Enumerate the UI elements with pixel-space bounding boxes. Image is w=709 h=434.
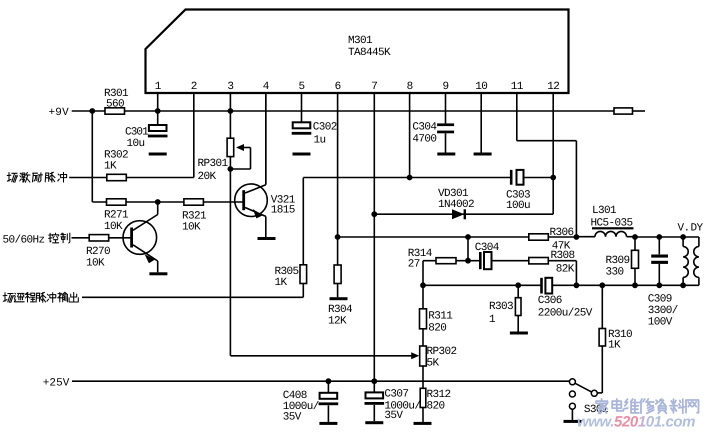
- capacitor C304 pin9: [412, 122, 454, 153]
- resistor R312: [420, 388, 450, 412]
- resistor R301: [104, 88, 129, 114]
- junction: [465, 234, 471, 240]
- deflection yoke V DY coil: [678, 223, 704, 286]
- junction: [515, 282, 521, 288]
- pin 3 label: [227, 81, 233, 93]
- wire R309 branch: [634, 237, 636, 285]
- svg-text:R312: R312: [427, 389, 451, 401]
- node +25V label: [43, 378, 70, 390]
- pin 12 label: [547, 81, 559, 93]
- label field retrace pulse output (CJK): [3, 292, 78, 302]
- wire pin7 stub down to +25V line: [373, 93, 375, 381]
- resistor R310: [599, 329, 632, 352]
- resistor R271: [104, 199, 129, 233]
- wire pin5 stub to C302: [301, 93, 303, 122]
- svg-text:DY: DY: [691, 223, 704, 235]
- capacitor C306: [538, 278, 593, 320]
- node +9V label: [49, 107, 70, 119]
- junction: [371, 211, 377, 217]
- svg-text:11: 11: [511, 81, 524, 93]
- svg-text:27: 27: [408, 259, 420, 271]
- resistor R304: [328, 265, 353, 327]
- IC M301 TA8445K: [146, 10, 569, 94]
- resistor unlabeled top right: [614, 108, 633, 114]
- svg-text:1K: 1K: [608, 340, 621, 352]
- svg-text:1: 1: [489, 314, 496, 326]
- svg-text:C408: C408: [283, 390, 307, 402]
- wire pin3 stub down through RP301 node: [229, 93, 231, 356]
- ground C301: [149, 153, 167, 156]
- svg-text:10u: 10u: [127, 138, 145, 150]
- wire C408 branch: [327, 381, 329, 422]
- svg-text:RP301: RP301: [198, 158, 229, 170]
- wire pin6 stub down to R304: [337, 93, 339, 297]
- svg-text:20K: 20K: [198, 171, 217, 183]
- svg-text:C301: C301: [125, 127, 149, 139]
- capacitor C303: [506, 170, 530, 212]
- junction: [574, 282, 580, 288]
- wire R303 branch: [517, 285, 519, 331]
- svg-text:10K: 10K: [104, 221, 123, 233]
- ground Q emitter: [149, 272, 167, 275]
- wire C309 branch: [658, 237, 660, 285]
- svg-text:12: 12: [547, 81, 559, 93]
- wire pin11 feed to output node: [517, 93, 577, 237]
- capacitor C301: [125, 125, 168, 150]
- junction: [155, 108, 161, 114]
- wire +9V feed down to R271: [91, 111, 93, 202]
- ground R304: [330, 297, 348, 300]
- resistor R306: [529, 227, 574, 253]
- svg-text:R306: R306: [550, 227, 574, 239]
- svg-text:2: 2: [191, 81, 197, 93]
- svg-text:10K: 10K: [182, 222, 201, 234]
- svg-text:TA8445K: TA8445K: [348, 47, 391, 59]
- capacitor C302: [292, 122, 337, 147]
- svg-text:+9V: +9V: [49, 107, 70, 119]
- wire field-drive-pulse line: [69, 177, 194, 179]
- pin 1 label: [155, 81, 162, 93]
- ground pin10: [474, 153, 492, 156]
- svg-text:R271: R271: [104, 210, 129, 222]
- pin 2 label: [191, 81, 197, 93]
- capacitor C304 series: [475, 242, 500, 269]
- wire R306 feedback line: [338, 236, 577, 238]
- pin 8 label: [407, 81, 413, 93]
- capacitor C309: [648, 255, 678, 329]
- junction: [465, 258, 471, 264]
- ground C302: [293, 153, 311, 156]
- wire C307 branch: [373, 381, 375, 421]
- svg-text:82K: 82K: [556, 264, 575, 276]
- pin 9 label: [442, 81, 448, 93]
- wire +25V line: [72, 380, 569, 382]
- svg-text:4: 4: [263, 81, 270, 93]
- wire 50/60Hz control line: [72, 237, 132, 239]
- wire R314 left leg: [422, 261, 424, 286]
- wire +9V rail: [72, 110, 645, 112]
- junction: [420, 282, 426, 288]
- svg-text:C306: C306: [538, 295, 562, 307]
- svg-text:1815: 1815: [271, 205, 295, 217]
- potentiometer RP301: [198, 138, 251, 183]
- resistor R302: [104, 150, 128, 181]
- junction: [656, 234, 662, 240]
- ground C304: [437, 153, 455, 156]
- wire pin1 stub to rail and C301: [157, 93, 159, 125]
- junction: [680, 282, 686, 288]
- svg-text:www.520101.com: www.520101.com: [577, 414, 695, 430]
- ground R312: [414, 422, 432, 425]
- capacitor C307: [365, 388, 421, 422]
- svg-text:1: 1: [155, 81, 162, 93]
- svg-text:35V: 35V: [283, 411, 302, 423]
- svg-text:RP302: RP302: [427, 346, 457, 358]
- junction: [89, 108, 95, 114]
- svg-text:C304: C304: [412, 122, 437, 134]
- svg-text:3300/: 3300/: [648, 305, 678, 317]
- svg-text:100V: 100V: [648, 316, 673, 328]
- watermark www.520101.com: [577, 414, 695, 431]
- pin 7 label: [371, 81, 377, 93]
- wire pin4 stub to V321 collector: [265, 93, 267, 184]
- svg-text:5: 5: [298, 81, 304, 93]
- svg-text:50/60Hz: 50/60Hz: [3, 235, 45, 247]
- wire VD301 flyback line: [374, 213, 553, 215]
- wire R271 R321 base line: [92, 201, 243, 203]
- svg-text:9: 9: [442, 81, 448, 93]
- svg-text:820: 820: [428, 322, 446, 334]
- svg-text:7: 7: [371, 81, 377, 93]
- svg-text:8: 8: [407, 81, 413, 93]
- pin 10 label: [475, 81, 487, 93]
- transistor V321: [235, 93, 296, 237]
- svg-text:L301: L301: [592, 205, 617, 217]
- capacitor C408: [283, 390, 338, 423]
- switch S301: [569, 379, 609, 420]
- svg-text:10: 10: [475, 81, 487, 93]
- transistor Q 50/60Hz switch: [123, 202, 158, 272]
- label 50/60Hz control: [3, 233, 70, 246]
- resistor R311: [420, 309, 454, 335]
- resistor R314: [408, 248, 456, 271]
- wire pin9 stub to C304: [445, 93, 447, 123]
- ground V321 emitter: [258, 237, 276, 240]
- wire output top line to yoke: [635, 236, 699, 238]
- resistor R321: [182, 199, 207, 234]
- svg-text:R270: R270: [86, 246, 110, 258]
- resistor R303: [489, 298, 521, 326]
- resistor R270: [86, 235, 110, 270]
- inductor L301: [576, 205, 635, 237]
- pin 6 label: [335, 81, 341, 93]
- svg-text:3: 3: [227, 81, 233, 93]
- junction: [574, 234, 580, 240]
- junction: [335, 234, 341, 240]
- svg-text:100u: 100u: [506, 200, 530, 212]
- junction: [407, 175, 413, 181]
- svg-text:2200u/25V: 2200u/25V: [538, 307, 593, 319]
- ground S301: [564, 420, 582, 423]
- resistor R305: [275, 265, 307, 289]
- junction: [371, 378, 377, 384]
- wire R310 branch to switch: [597, 285, 602, 393]
- svg-text:12K: 12K: [328, 315, 347, 327]
- wire pin2 stub down to drive-pulse line: [193, 93, 195, 178]
- svg-text:1K: 1K: [104, 161, 117, 173]
- resistor R309: [606, 250, 639, 278]
- junction: [155, 199, 161, 205]
- wire pin10 stub to ground: [480, 93, 482, 154]
- node RP301 wiper junction: [228, 166, 234, 172]
- wire R314 C304 R308 line: [423, 261, 576, 286]
- junction: [632, 234, 638, 240]
- svg-text:1K: 1K: [275, 277, 288, 289]
- svg-text:HC5-035: HC5-035: [591, 217, 633, 229]
- wire R305 branch vertical: [302, 178, 304, 298]
- svg-text:V.: V.: [678, 223, 690, 235]
- wire pin12 stub down to flyback diode line: [552, 93, 554, 214]
- svg-text:4700: 4700: [412, 134, 436, 146]
- pin 5 label: [298, 81, 304, 93]
- ground R303: [510, 332, 528, 335]
- svg-text:C309: C309: [648, 293, 672, 305]
- svg-text:C304: C304: [475, 242, 500, 254]
- svg-text:R303: R303: [489, 301, 513, 313]
- svg-text:560: 560: [106, 99, 124, 111]
- junction: [599, 282, 605, 288]
- wire junction drop to C304 line: [467, 237, 469, 261]
- svg-text:820: 820: [427, 400, 445, 412]
- wire RP302 wiper line: [230, 355, 417, 357]
- wire 177 line pin8 to C303 to pin12: [303, 177, 553, 179]
- wire field-retrace output line: [82, 296, 303, 298]
- svg-text:R309: R309: [606, 255, 630, 267]
- diode VD301 1N4002: [438, 188, 474, 220]
- svg-text:+25V: +25V: [43, 378, 70, 390]
- svg-text:R308: R308: [551, 250, 575, 262]
- junction: [680, 234, 686, 240]
- svg-text:R304: R304: [328, 304, 353, 316]
- svg-text:1N4002: 1N4002: [438, 199, 474, 211]
- svg-text:R311: R311: [428, 310, 453, 322]
- junction: [656, 282, 662, 288]
- potentiometer RP302: [411, 346, 456, 370]
- svg-text:10K: 10K: [86, 258, 105, 270]
- svg-text:330: 330: [606, 266, 624, 278]
- svg-text:6: 6: [335, 81, 341, 93]
- pin 4 label: [263, 81, 270, 93]
- junction: [550, 175, 556, 181]
- pin 11 label: [511, 81, 524, 93]
- junction: [228, 108, 234, 114]
- svg-text:35V: 35V: [384, 410, 403, 422]
- ground C307: [365, 421, 383, 424]
- svg-text:C302: C302: [313, 122, 337, 134]
- svg-text:1u: 1u: [314, 135, 326, 147]
- svg-text:M301: M301: [348, 35, 373, 47]
- resistor R308: [529, 250, 575, 276]
- svg-text:C307: C307: [384, 388, 408, 400]
- wire R311 RP302 R312 chain: [422, 285, 424, 422]
- junction: [632, 282, 638, 288]
- label field drive pulse (CJK): [7, 172, 66, 182]
- wire pin8 stub to 177 line: [409, 93, 411, 178]
- wire bottom feedback node line: [423, 284, 699, 286]
- ground C408: [319, 422, 337, 425]
- svg-text:5K: 5K: [427, 358, 440, 370]
- junction: [326, 378, 332, 384]
- watermark jiadian weixiu ziliao wang: [596, 399, 698, 414]
